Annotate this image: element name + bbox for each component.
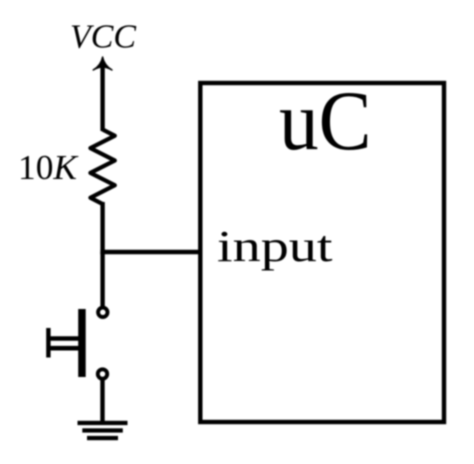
wire VCC to resistor bbox=[100, 64, 104, 131]
handle bar bbox=[46, 328, 50, 358]
bottom contact circle bbox=[98, 369, 107, 378]
wire node to uC input bbox=[100, 250, 200, 254]
microcontroller U1 box bbox=[200, 83, 444, 422]
actuator bar bbox=[78, 309, 86, 377]
top contact circle bbox=[98, 308, 107, 317]
wire node to button top contact bbox=[100, 252, 104, 306]
ground bar 3 bbox=[87, 436, 118, 440]
ground bar 2 bbox=[82, 428, 123, 432]
svg-text:10K: 10K bbox=[18, 148, 79, 187]
svg-text:uC: uC bbox=[279, 74, 372, 168]
stem line upper bbox=[47, 336, 82, 341]
push button S1 bbox=[46, 308, 107, 379]
VCC arrow bbox=[93, 57, 112, 70]
node junction bbox=[100, 250, 104, 255]
ground bbox=[78, 421, 128, 440]
svg-text:input: input bbox=[217, 222, 333, 271]
stem line lower bbox=[47, 346, 82, 351]
ground bar 1 bbox=[78, 421, 128, 425]
svg-text:VCC: VCC bbox=[70, 19, 136, 56]
resistor R1 10K bbox=[90, 130, 114, 205]
wire button to ground bbox=[100, 380, 104, 422]
wire resistor to node bbox=[100, 202, 104, 254]
